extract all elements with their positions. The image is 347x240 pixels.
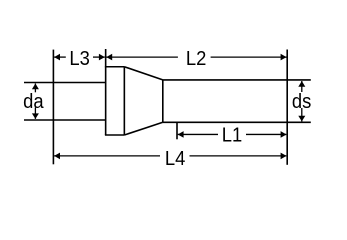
svg-text:L1: L1 [222,125,242,147]
svg-text:ds: ds [292,91,311,113]
svg-text:L4: L4 [165,148,186,170]
svg-text:L3: L3 [69,48,89,70]
svg-text:da: da [23,91,44,113]
svg-text:L2: L2 [186,48,206,70]
